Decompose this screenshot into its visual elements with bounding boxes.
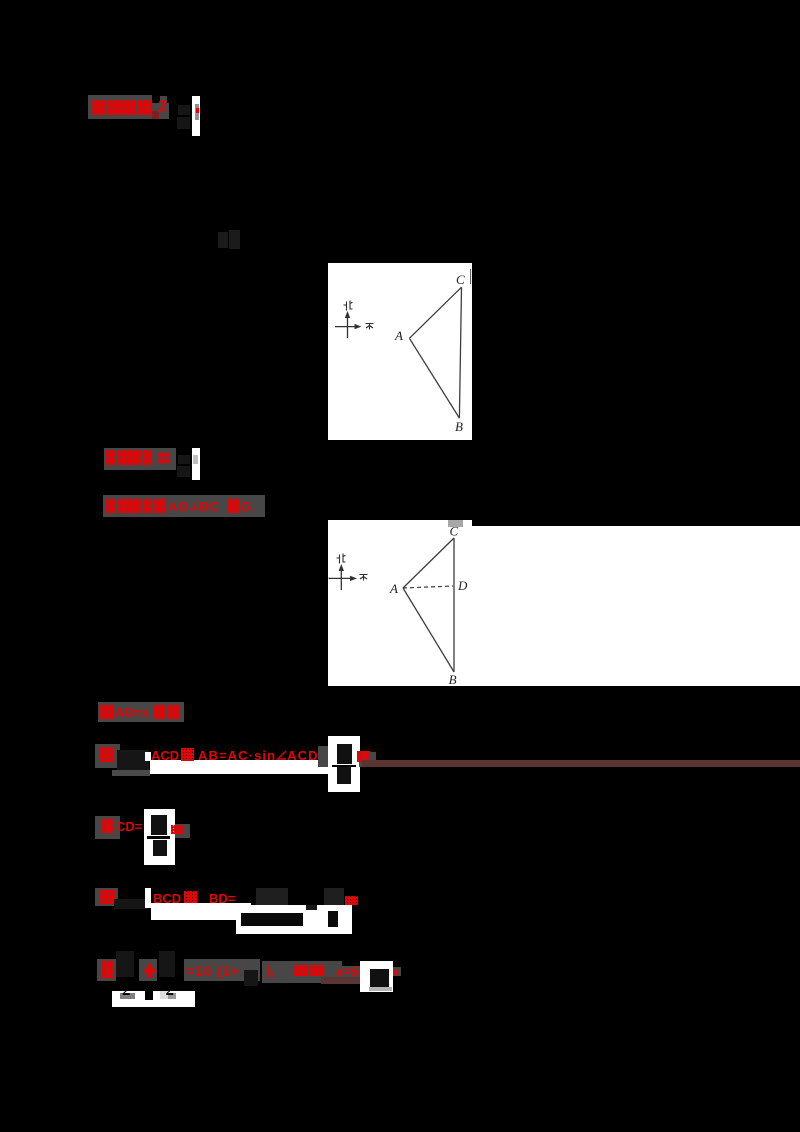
line E: red mi character [357,751,370,762]
line E: white fraction box [328,736,361,792]
line F: gray right [175,824,190,838]
line H: red you [101,961,114,978]
svg-text:C: C [449,523,458,538]
line F: field shading [95,816,120,839]
line F: red mi [171,825,184,834]
line G: red BCD zhong [153,891,181,906]
dashed altitude AD [403,586,453,588]
svg-text:C: C [456,272,465,287]
line D: red she [100,705,113,719]
line E: gray near fraction [318,746,328,767]
svg-text:A: A [394,328,403,343]
line A: field shading behind answer heading [88,95,152,119]
faint dark text (ru tu) on black [218,232,228,248]
line E: white patch left [145,752,151,761]
line A: faint black fraction on black [178,105,190,115]
line H: red ), [266,962,275,978]
line H: gray small [342,966,360,977]
compass label east (hand-drawn dong) [360,574,368,580]
line F: fraction denominator [153,840,167,856]
line G: red zai [100,890,115,904]
compass label north (hand-drawn bei) [337,553,346,563]
line E: field shading left [95,744,120,768]
line G: big white formula area [236,905,352,934]
line H: dark red underline segment [321,977,361,984]
line H: gray right of result box [393,967,401,976]
line G: red mi [345,896,358,905]
compass label north (hand-drawn bei) [344,301,353,311]
line C: red math text [168,499,220,514]
line H: red period [393,970,397,975]
line F: fraction numerator [151,815,167,835]
line E: gray blocks under glyphs [112,770,150,776]
edge artifact line near C [470,269,472,284]
compass north arrow [347,314,349,338]
line H: fraction 1 numerator faint [116,951,134,977]
triangle side AB [409,338,459,418]
triangle side AC [409,287,461,338]
line E: fraction bar [332,765,356,767]
line A: red heading characters [92,100,106,115]
line B: red heading characters [106,450,116,465]
line B: white formula strip [192,448,200,480]
line A: red comma [152,111,159,119]
line F: white fraction box [144,809,175,865]
triangle side CB [459,287,461,418]
line B: field shading [104,448,176,470]
line D: red (mi). [153,705,166,719]
line H: red jiede characters [294,965,308,976]
line G: denominator 2 [328,911,338,927]
line F: red ji [101,819,114,833]
line H: fraction 2 numerator faint [159,951,175,977]
line D: field shading [98,702,184,722]
line B: faint black fraction [178,455,190,464]
diagram box 1: white figure background [328,263,472,440]
line E: black triangle ACD glyphs [117,750,149,770]
diagram box 2: triangle ABC with altitude AD [328,520,472,686]
svg-text:D: D [457,578,468,593]
line H: gray behind plus [139,959,157,981]
line G: denominator 1 sin BDC [241,913,303,926]
line H: light strip bottom of result box [369,987,392,992]
line G: red BD= [209,891,235,906]
line G: equals between fractions [306,905,317,910]
line A: white formula strip [192,96,200,136]
compass east arrow [335,326,358,328]
line A: red dot on strip [196,108,199,113]
triangle side CB [453,538,455,672]
line G: white band under red [151,903,251,920]
line E: red math run [151,748,179,763]
line E: fraction denominator [337,767,351,784]
line E: red zai [99,747,114,762]
diagram box 2: wide white figure background [328,520,472,686]
svg-text:B: B [455,419,463,434]
line G: numerator 1 [256,888,288,905]
line G: black triangle BCD glyphs [114,899,148,909]
compass east arrow [329,577,354,579]
compass north arrow [340,567,342,590]
line C: field shading [103,495,265,517]
svg-text:A: A [389,581,398,596]
diagram box 1: triangle ABC with compass [328,263,472,440]
line H: denominator 2 digit 2 [166,980,175,1000]
line B: red equals [157,453,169,457]
line H: fraction 1 white base [112,991,145,1007]
line E: gray right of fraction [359,752,376,767]
line F: red CD= [116,819,142,834]
line D: red AD=x [115,705,149,720]
line H: field shading behind you [97,959,116,981]
line G: field shading [95,888,118,906]
line E: dark red underline band to page edge [362,760,800,767]
line H: gray behind ), [262,961,342,983]
triangle side AB [403,588,454,672]
diagram box 2: gray artifact square [448,520,463,527]
line C: red character yu [227,499,239,513]
line H: white join below notch [144,1000,154,1007]
line C: red heading (jiexi) [106,499,116,513]
line A: red digit 2 [158,98,167,116]
line H: gray behind denominator 1 [120,993,135,999]
triangle side AC [403,538,454,588]
line H: white result box [360,961,393,992]
line E: fraction numerator [337,744,352,764]
line F: fraction bar [147,836,170,839]
line H: gray behind =10(1+ [184,959,260,981]
svg-text:B: B [449,672,457,686]
line H: black 10 in result box [370,969,389,987]
line H: red x=3 [336,964,358,979]
line E: white formula band [150,760,360,774]
line G: white sliver [145,888,152,908]
line C: red D. [241,499,254,514]
compass label east (hand-drawn dong) [366,324,374,330]
line G: numerator 2 [324,888,344,905]
line H: red =10 (1+ [186,963,240,979]
line H: fraction 2 white base [153,991,195,1007]
line H: denominator 1 digit 2 [122,980,131,1000]
line H: dark sqrt3 [244,970,258,986]
line C: red character [154,499,166,513]
line H: red plus [143,969,156,973]
